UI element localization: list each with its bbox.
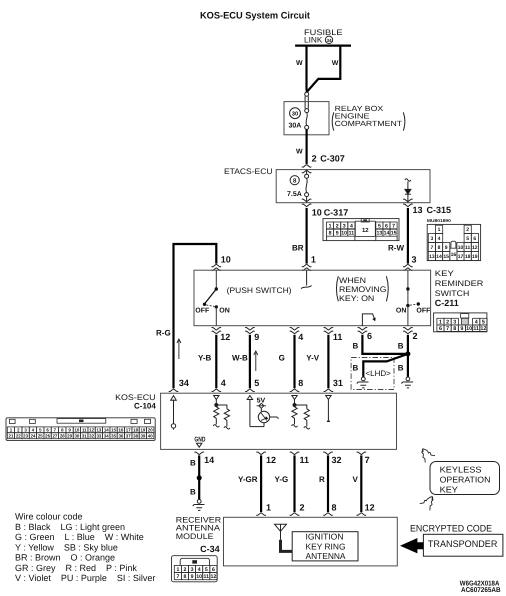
svg-text:12: 12	[362, 227, 369, 234]
svg-text:17: 17	[458, 254, 464, 260]
svg-text:9: 9	[460, 326, 463, 332]
pin 4 internal resistors	[213, 396, 230, 430]
svg-text:IGNITION: IGNITION	[306, 531, 344, 541]
label W left	[296, 60, 303, 67]
svg-text:AC607265AB: AC607265AB	[461, 587, 501, 594]
svg-text:B : Black LG : Light green: B : Black LG : Light green	[15, 522, 125, 532]
svg-text:B: B	[353, 364, 359, 373]
pin 31 internal	[326, 396, 331, 422]
svg-text:COMPARTMENT: COMPARTMENT	[335, 119, 403, 128]
svg-text:V: V	[353, 475, 359, 484]
svg-text:19: 19	[140, 427, 145, 432]
radio wave arrow upper	[422, 449, 435, 463]
circled 30	[290, 108, 301, 119]
svg-text:5: 5	[254, 378, 259, 388]
svg-text:13: 13	[377, 231, 383, 237]
KOS-ECU box	[161, 393, 397, 449]
svg-text:C-211: C-211	[435, 298, 459, 308]
svg-text:11: 11	[349, 231, 355, 237]
receiver antenna module label	[176, 515, 222, 540]
svg-text:31: 31	[82, 433, 87, 438]
wire colour code	[15, 512, 155, 584]
svg-text:2: 2	[413, 331, 418, 341]
svg-text:Wire colour code: Wire colour code	[15, 512, 83, 522]
wire W right branch	[307, 46, 340, 92]
keyless operation key box	[430, 462, 500, 495]
svg-text:SWITCH: SWITCH	[435, 289, 470, 298]
svg-text:B: B	[353, 342, 359, 351]
svg-text:B: B	[398, 364, 404, 373]
svg-text:12: 12	[89, 427, 94, 432]
svg-text:16: 16	[451, 252, 457, 258]
svg-text:6: 6	[439, 326, 442, 332]
svg-text:7: 7	[431, 245, 434, 251]
svg-text:9: 9	[191, 574, 194, 580]
wire Y-B	[215, 335, 217, 388]
label 10 C-317	[312, 208, 349, 218]
svg-text:1: 1	[266, 503, 271, 513]
svg-text:19: 19	[472, 254, 478, 260]
svg-text:12: 12	[480, 326, 486, 332]
svg-text:7: 7	[392, 223, 395, 229]
svg-text:Y-B: Y-B	[198, 353, 212, 362]
ground B	[193, 500, 205, 511]
svg-text:7: 7	[446, 326, 449, 332]
svg-text:2: 2	[466, 227, 469, 233]
svg-text:W: W	[296, 60, 303, 67]
wire B pin6	[362, 335, 408, 354]
svg-text:LINK: LINK	[304, 35, 323, 44]
labels above KOS-ECU box	[179, 378, 189, 388]
svg-text:REMOVING: REMOVING	[339, 285, 387, 294]
svg-text:B: B	[190, 459, 196, 468]
svg-text:11: 11	[204, 574, 210, 580]
relay box	[284, 102, 329, 135]
push switch	[203, 270, 218, 326]
switch box chevrons top	[212, 264, 413, 270]
wire Y-V	[327, 335, 329, 388]
svg-text:14: 14	[384, 231, 390, 237]
svg-text:21: 21	[9, 433, 14, 438]
LHD dash-dot box	[351, 358, 394, 390]
svg-text:Y-G: Y-G	[275, 475, 289, 484]
svg-text:TRANSPONDER: TRANSPONDER	[428, 539, 498, 550]
svg-text:V : Violet PU : Purple S: V : Violet PU : Purple SI : Silver	[15, 573, 155, 583]
svg-text:4: 4	[298, 332, 303, 342]
svg-text:10: 10	[466, 326, 472, 332]
svg-text:8: 8	[332, 503, 337, 513]
svg-text:34: 34	[104, 433, 109, 438]
svg-text:3: 3	[412, 255, 417, 265]
svg-text:6: 6	[367, 331, 372, 341]
svg-text:12: 12	[220, 332, 230, 342]
svg-text:15: 15	[391, 231, 397, 237]
svg-text:2: 2	[336, 223, 339, 229]
svg-text:2: 2	[446, 320, 449, 326]
svg-text:KEY: KEY	[440, 484, 459, 494]
svg-text:10: 10	[341, 231, 347, 237]
svg-text:30: 30	[74, 433, 79, 438]
label W right	[332, 60, 339, 67]
label pin 3	[412, 255, 417, 265]
svg-text:40: 40	[148, 433, 153, 438]
svg-text:10: 10	[196, 574, 202, 580]
ETACS fuse symbol	[305, 170, 309, 203]
junction dot	[405, 351, 410, 356]
svg-text:3: 3	[431, 236, 434, 242]
wire R	[327, 455, 329, 512]
svg-text:28: 28	[60, 433, 65, 438]
svg-text:6: 6	[385, 223, 388, 229]
GND label and pin	[194, 436, 205, 447]
svg-text:7: 7	[365, 455, 370, 465]
encrypted code label	[410, 523, 492, 534]
svg-text:<LHD>: <LHD>	[366, 369, 392, 378]
svg-text:12: 12	[365, 503, 375, 513]
svg-text:KEY: KEY	[435, 269, 455, 278]
svg-text:30A: 30A	[289, 122, 302, 129]
ETACS-ECU box	[276, 170, 430, 203]
ground key reminder	[401, 377, 413, 388]
svg-text:37: 37	[126, 433, 131, 438]
svg-text:C-315: C-315	[427, 205, 452, 215]
label 7.5A	[287, 191, 302, 198]
svg-text:KOS-ECU System Circuit: KOS-ECU System Circuit	[200, 11, 311, 22]
wire W left from fusible link	[305, 46, 308, 93]
feet at module top	[257, 513, 366, 516]
ETACS-ECU label	[224, 167, 273, 176]
svg-text:1: 1	[311, 255, 316, 265]
svg-text:10: 10	[74, 427, 79, 432]
label pin 1	[311, 255, 316, 265]
label R-G	[156, 329, 171, 338]
label R-W	[388, 244, 404, 253]
feet at KOS-ECU bottom	[195, 452, 366, 455]
wire Y-G	[293, 455, 295, 512]
wire G	[293, 335, 295, 388]
svg-text:3: 3	[191, 567, 194, 573]
svg-text:8: 8	[329, 231, 332, 237]
svg-text:R-G: R-G	[156, 329, 171, 338]
transponder box	[423, 534, 503, 556]
svg-text:9: 9	[254, 332, 259, 342]
feet at KOS-ECU top	[169, 389, 333, 392]
svg-text:24: 24	[31, 433, 36, 438]
svg-text:9: 9	[336, 231, 339, 237]
svg-text:11: 11	[465, 245, 471, 251]
wire V	[360, 455, 362, 512]
transponder arrow	[400, 538, 423, 553]
C-315 connector pinout	[427, 218, 481, 261]
svg-text:C-307: C-307	[320, 154, 345, 164]
svg-text:8: 8	[438, 245, 441, 251]
svg-text:4: 4	[475, 320, 478, 326]
svg-text:GR : Grey R : Red P : Pi: GR : Grey R : Red P : Pink	[15, 563, 137, 573]
KOS-ECU label	[115, 393, 156, 402]
label C-104	[134, 401, 156, 410]
R-G direction arrow	[177, 339, 181, 359]
svg-text:ON: ON	[396, 307, 407, 314]
svg-text:20: 20	[148, 427, 153, 432]
splice dot	[197, 475, 202, 480]
wire B pin2	[407, 335, 409, 377]
svg-text:7.5A: 7.5A	[287, 191, 302, 198]
svg-text:34: 34	[326, 38, 332, 43]
svg-text:15: 15	[111, 427, 116, 432]
svg-text:W: W	[296, 149, 303, 156]
svg-text:23: 23	[23, 433, 28, 438]
wire W-B	[249, 335, 251, 388]
svg-text:Y : Yellow SB : Sky blue: Y : Yellow SB : Sky blue	[15, 542, 118, 552]
svg-text:17: 17	[126, 427, 131, 432]
wire W relay to ETACS	[306, 129, 308, 164]
connector C-307 chevrons	[302, 165, 311, 173]
label ON (key reminder)	[396, 307, 407, 314]
label 13 C-315	[413, 205, 452, 215]
svg-text:KEY: ON: KEY: ON	[339, 294, 375, 303]
svg-text:33: 33	[96, 433, 101, 438]
svg-text:ENCRYPTED CODE: ENCRYPTED CODE	[410, 523, 492, 534]
connector C-317 chevrons on BR wire	[302, 199, 311, 206]
svg-text:3: 3	[343, 223, 346, 229]
when removing key note	[336, 276, 388, 303]
fixed contact of push switch (BR wire end)	[301, 270, 312, 288]
C-317 connector pinout	[323, 219, 399, 241]
svg-text:KEYLESS: KEYLESS	[440, 465, 482, 475]
svg-text:11: 11	[473, 326, 479, 332]
wire R-G loop to switch	[174, 244, 217, 388]
svg-text:4: 4	[221, 378, 226, 388]
svg-text:11: 11	[333, 332, 343, 342]
svg-text:13: 13	[429, 254, 435, 260]
svg-text:REMINDER: REMINDER	[435, 279, 484, 288]
svg-text:1: 1	[329, 223, 332, 229]
C-104 connector pinout	[6, 418, 155, 441]
svg-text:32: 32	[332, 455, 342, 465]
svg-text:11: 11	[82, 427, 87, 432]
svg-text:1: 1	[438, 227, 441, 233]
labels above module	[266, 503, 271, 513]
svg-text:10: 10	[221, 255, 231, 265]
antenna symbol	[275, 524, 293, 551]
label 30A	[289, 122, 302, 129]
svg-text:12: 12	[211, 574, 217, 580]
labels below switch box	[220, 332, 230, 342]
svg-text:13: 13	[96, 427, 101, 432]
svg-text:B: B	[190, 488, 196, 497]
svg-text:14: 14	[204, 455, 214, 465]
key reminder switch contacts	[406, 270, 420, 326]
svg-text:10: 10	[312, 208, 322, 218]
svg-text:KEY RING: KEY RING	[306, 541, 346, 551]
svg-text:12: 12	[266, 455, 276, 465]
svg-text:C-104: C-104	[134, 401, 156, 410]
svg-text:B: B	[398, 342, 404, 351]
labels below KOS-ECU	[204, 455, 214, 465]
svg-text:8: 8	[184, 574, 187, 580]
label BR	[292, 244, 304, 253]
svg-text:7: 7	[176, 574, 179, 580]
svg-text:8: 8	[298, 378, 303, 388]
label (PUSH SWITCH)	[227, 286, 292, 295]
label ON (push switch)	[219, 307, 230, 314]
svg-text:39: 39	[140, 433, 145, 438]
svg-text:R: R	[319, 475, 325, 484]
svg-text:GND: GND	[194, 436, 205, 443]
fusible link bus bar	[295, 44, 351, 46]
svg-text:5: 5	[466, 236, 469, 242]
svg-text:G : Green L : Blue W : W: G : Green L : Blue W : White	[15, 532, 144, 542]
fusible link label	[304, 28, 343, 44]
W-B direction arrow	[254, 351, 258, 371]
svg-text:12: 12	[472, 245, 478, 251]
svg-text:BR : Brown O : Orange: BR : Brown O : Orange	[15, 553, 115, 563]
key reminder switch label	[435, 269, 484, 298]
label B LHD left	[353, 364, 359, 373]
svg-text:1: 1	[439, 320, 442, 326]
ignition key ring antenna label box	[292, 531, 358, 561]
fusible link fuse symbol	[305, 92, 309, 129]
svg-text:W-B: W-B	[232, 353, 248, 362]
svg-text:15: 15	[443, 254, 449, 260]
label C-211	[435, 298, 459, 308]
ground LHD	[357, 377, 369, 388]
svg-text:5: 5	[378, 223, 381, 229]
svg-text:ANTENNA: ANTENNA	[306, 551, 346, 561]
label OFF (key reminder)	[416, 307, 431, 314]
svg-text:C-34: C-34	[200, 544, 220, 554]
svg-text:22: 22	[16, 433, 21, 438]
label pin 10	[221, 255, 231, 265]
svg-text:ON: ON	[219, 307, 230, 314]
pin 5 internal 5V regulator	[247, 396, 278, 427]
svg-text:35: 35	[111, 433, 116, 438]
svg-text:G: G	[279, 353, 285, 362]
svg-text:OFF: OFF	[416, 307, 431, 314]
svg-text:18: 18	[133, 427, 138, 432]
connector C-307 label	[312, 154, 345, 164]
svg-text:BR: BR	[292, 244, 304, 253]
svg-text:8: 8	[453, 326, 456, 332]
label LHD	[366, 369, 392, 378]
svg-text:18: 18	[465, 254, 471, 260]
svg-text:38: 38	[133, 433, 138, 438]
svg-text:5: 5	[205, 567, 208, 573]
svg-text:WHEN: WHEN	[339, 276, 366, 285]
svg-text:13: 13	[413, 205, 423, 215]
svg-text:3: 3	[453, 320, 456, 326]
actuation arrow inside switch box	[362, 314, 375, 326]
svg-text:MODULE: MODULE	[176, 532, 214, 541]
wire B to LHD ground	[363, 354, 408, 377]
svg-text:W: W	[332, 60, 339, 67]
svg-text:2: 2	[312, 154, 317, 164]
C-211 connector pinout	[434, 313, 487, 332]
svg-text:30: 30	[292, 110, 298, 117]
svg-text:Y-V: Y-V	[306, 353, 320, 362]
svg-text:ETACS-ECU: ETACS-ECU	[224, 167, 273, 176]
wire B to ground	[198, 455, 200, 499]
diode in ETACS	[405, 179, 411, 203]
svg-text:26: 26	[45, 433, 50, 438]
switch unit box	[194, 270, 431, 326]
svg-text:36: 36	[118, 433, 123, 438]
svg-text:32: 32	[89, 433, 94, 438]
pin 8 internal resistors	[292, 396, 310, 430]
svg-text:2: 2	[300, 503, 305, 513]
label W	[296, 149, 303, 156]
svg-text:MU801890: MU801890	[427, 218, 452, 223]
svg-text:16: 16	[118, 427, 123, 432]
svg-text:R-W: R-W	[388, 244, 404, 253]
wire R-W	[407, 208, 409, 264]
label C-34	[200, 544, 220, 554]
relay box label	[332, 104, 405, 131]
svg-text:11: 11	[300, 455, 310, 465]
svg-text:34: 34	[179, 378, 189, 388]
title	[200, 11, 311, 22]
label B LHD right	[398, 364, 404, 373]
svg-text:14: 14	[104, 427, 109, 432]
svg-text:4: 4	[198, 567, 201, 573]
switch box chevrons bottom	[212, 327, 413, 333]
svg-text:1: 1	[176, 567, 179, 573]
svg-text:10: 10	[458, 245, 464, 251]
circled 8 fuse designator	[290, 176, 299, 185]
svg-text:29: 29	[67, 433, 72, 438]
svg-text:2: 2	[184, 567, 187, 573]
radio wave arrow lower	[420, 496, 433, 510]
svg-text:27: 27	[52, 433, 57, 438]
svg-text:6: 6	[473, 236, 476, 242]
label OFF (push switch)	[195, 307, 210, 314]
svg-text:31: 31	[333, 378, 343, 388]
svg-text:5: 5	[482, 320, 485, 326]
receiver antenna module box	[224, 517, 398, 566]
svg-text:9: 9	[445, 245, 448, 251]
connector C-315 chevrons on R-W wire	[403, 199, 412, 206]
svg-text:C-317: C-317	[324, 208, 349, 218]
svg-text:(PUSH SWITCH): (PUSH SWITCH)	[227, 286, 292, 295]
wire BR	[306, 208, 308, 264]
svg-text:OFF: OFF	[195, 307, 210, 314]
svg-text:25: 25	[38, 433, 43, 438]
wire Y-GR	[260, 455, 262, 512]
svg-text:6: 6	[212, 567, 215, 573]
svg-text:4: 4	[350, 223, 353, 229]
svg-text:Y-GR: Y-GR	[238, 475, 258, 484]
svg-text:4: 4	[438, 236, 441, 242]
C-34 connector pinout	[172, 556, 218, 582]
svg-text:14: 14	[436, 254, 442, 260]
svg-text:OPERATION: OPERATION	[440, 475, 491, 485]
pin 34 internal	[171, 396, 177, 430]
footer part numbers	[460, 580, 501, 594]
